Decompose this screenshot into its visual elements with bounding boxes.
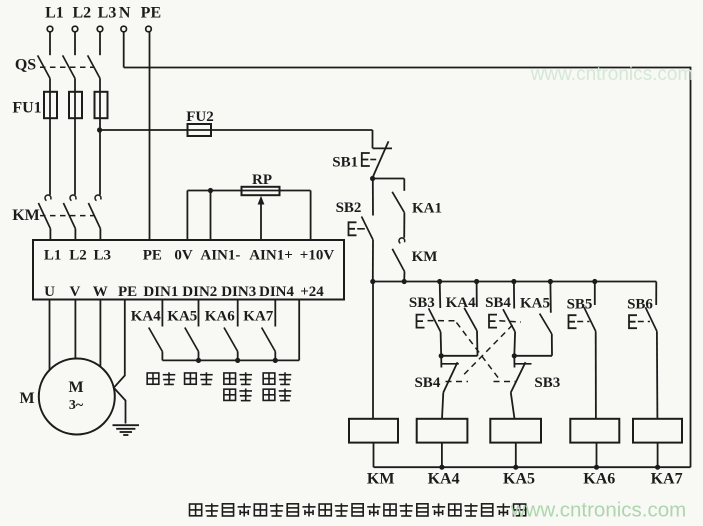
svg-text:L2: L2 (69, 248, 87, 264)
svg-text:www.cntronics.com: www.cntronics.com (510, 499, 686, 522)
svg-text:KA5: KA5 (167, 308, 197, 324)
svg-text:L3: L3 (93, 248, 111, 264)
svg-text:KA7: KA7 (243, 308, 274, 324)
svg-text:FU1: FU1 (12, 100, 41, 117)
svg-text:DIN1: DIN1 (143, 284, 178, 300)
svg-text:L1: L1 (44, 248, 62, 264)
svg-text:KA6: KA6 (205, 308, 236, 324)
svg-text:KA1: KA1 (412, 201, 442, 217)
svg-text:SB1: SB1 (332, 155, 358, 171)
svg-text:DIN3: DIN3 (221, 284, 256, 300)
svg-text:+10V: +10V (300, 248, 335, 264)
svg-text:L3: L3 (98, 5, 117, 22)
svg-text:RP: RP (252, 172, 272, 188)
svg-text:DIN2: DIN2 (182, 284, 217, 300)
svg-text:L1: L1 (45, 5, 64, 22)
svg-text:M: M (19, 390, 34, 407)
svg-text:AIN1+: AIN1+ (249, 248, 293, 264)
svg-text:KM: KM (412, 249, 438, 265)
svg-text:PE: PE (141, 5, 161, 22)
svg-text:KA7: KA7 (651, 471, 683, 488)
svg-text:+24: +24 (300, 284, 324, 300)
svg-text:KA5: KA5 (503, 471, 535, 488)
svg-text:KM: KM (12, 207, 40, 224)
svg-text:SB3: SB3 (534, 375, 560, 391)
svg-text:DIN4: DIN4 (259, 284, 295, 300)
svg-text:V: V (69, 284, 80, 300)
svg-text:SB2: SB2 (336, 200, 362, 216)
svg-text:KA4: KA4 (446, 295, 477, 311)
svg-text:KA6: KA6 (583, 471, 615, 488)
svg-text:SB3: SB3 (409, 295, 435, 311)
svg-text:3~: 3~ (69, 398, 84, 413)
svg-text:KM: KM (367, 471, 395, 488)
svg-text:SB4: SB4 (485, 295, 511, 311)
svg-text:SB5: SB5 (567, 297, 593, 313)
svg-text:U: U (44, 284, 55, 300)
svg-text:KA4: KA4 (131, 308, 162, 324)
svg-text:N: N (119, 5, 131, 22)
svg-text:PE: PE (118, 284, 137, 300)
svg-text:0V: 0V (174, 248, 193, 264)
svg-text:FU2: FU2 (186, 109, 214, 125)
svg-text:L2: L2 (72, 5, 91, 22)
svg-text:KA5: KA5 (520, 296, 550, 312)
svg-text:KA4: KA4 (428, 471, 460, 488)
svg-text:www.cntronics.com: www.cntronics.com (530, 64, 694, 85)
svg-text:W: W (93, 284, 108, 300)
svg-text:AIN1-: AIN1- (200, 248, 240, 264)
svg-text:M: M (68, 379, 83, 396)
svg-text:QS: QS (15, 57, 36, 74)
svg-text:PE: PE (143, 248, 162, 264)
svg-text:SB6: SB6 (627, 297, 653, 313)
svg-text:SB4: SB4 (414, 375, 440, 391)
